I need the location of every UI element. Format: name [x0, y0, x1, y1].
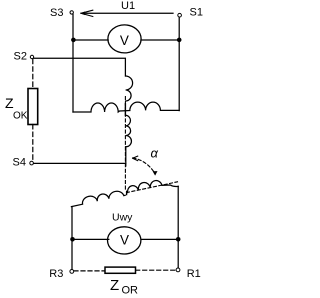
arrowhead alpha left: [133, 156, 138, 161]
terminal S2: [30, 55, 33, 58]
angle alpha dashed arc: [133, 158, 155, 174]
impedance Z_OK box: [28, 89, 38, 125]
svg-text:S2: S2: [14, 50, 27, 62]
terminal R3: [70, 270, 74, 274]
rotor axis dashed: [127, 182, 178, 193]
rotor winding right section: [128, 181, 179, 193]
wire rotor right vertical: [177, 186, 179, 268]
arrow U1 shaft: [81, 12, 173, 14]
wire to voltmeter U1 left: [73, 39, 108, 41]
wire rotor left vertical: [71, 207, 73, 270]
wire voltmeter Uwy right: [141, 238, 178, 240]
wire left vertical S3 down: [72, 14, 74, 112]
wire vertical coil to S4 line: [125, 147, 127, 166]
arrow U1 head: [81, 10, 93, 16]
svg-text:R1: R1: [187, 268, 201, 280]
svg-text:R3: R3: [49, 268, 63, 280]
svg-text:Uwy: Uwy: [112, 212, 133, 224]
stator axis dashed: [124, 97, 126, 191]
node junction left top: [71, 38, 76, 43]
svg-text:S4: S4: [13, 156, 26, 168]
winding S1 right section: [130, 102, 179, 110]
dashed wire R3 to Z_OR: [74, 270, 105, 272]
svg-text:U1: U1: [121, 0, 135, 12]
svg-text:Z: Z: [5, 95, 14, 111]
arrowhead alpha down: [153, 171, 158, 176]
winding S3 left section: [73, 103, 130, 112]
terminal S1: [178, 13, 182, 17]
terminal R1: [176, 268, 180, 272]
node junction left bottom: [70, 237, 75, 242]
impedance Z_OR box: [105, 267, 136, 273]
svg-text:α: α: [151, 145, 159, 160]
terminal S3: [70, 11, 73, 14]
rotor winding left section: [71, 191, 125, 206]
crossing bar: [124, 104, 126, 115]
svg-text:V: V: [120, 33, 129, 48]
rotor center tick: [126, 191, 128, 194]
voltmeter V2: [108, 227, 141, 254]
svg-text:Z: Z: [110, 277, 119, 294]
svg-text:V: V: [120, 233, 129, 248]
winding S2-S4 upper bumps: [126, 76, 133, 101]
wire S4 horizontal: [34, 162, 126, 164]
svg-text:S1: S1: [190, 7, 203, 19]
wire voltmeter right: [141, 39, 179, 41]
node junction right bottom: [176, 237, 181, 242]
dashed wire Z_OK to S4: [32, 125, 34, 162]
wire to voltmeter Uwy left: [73, 238, 109, 240]
svg-text:S3: S3: [50, 7, 63, 19]
winding S2-S4 lower bumps: [126, 115, 132, 147]
svg-text:OK: OK: [13, 110, 28, 121]
dashed wire Z_OR to R1: [136, 269, 176, 271]
svg-text:OR: OR: [122, 284, 139, 296]
wire right vertical S1 down: [178, 17, 180, 110]
terminal S4: [30, 161, 34, 165]
dashed wire S2 to Z_OK: [32, 59, 34, 88]
wire S2 horizontal: [34, 58, 126, 76]
voltmeter V1: [108, 25, 141, 53]
node junction right top: [177, 38, 182, 43]
